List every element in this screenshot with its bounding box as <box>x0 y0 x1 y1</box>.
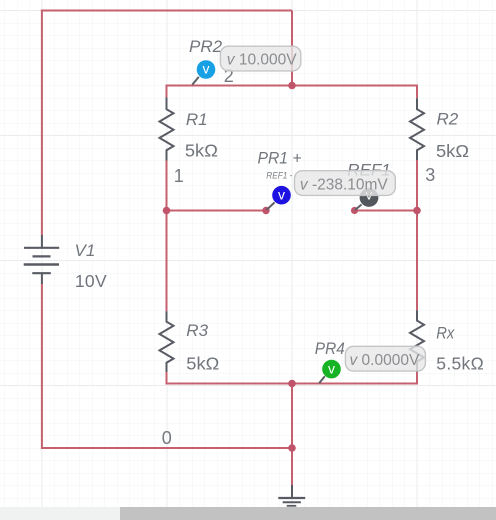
endpoint dot PR1 stub <box>262 207 269 214</box>
wire top rail <box>41 10 292 12</box>
junction node 1 <box>163 207 171 215</box>
svg-text:v 0.0000V: v 0.0000V <box>350 352 420 369</box>
svg-text:v -238.10mV: v -238.10mV <box>300 176 389 193</box>
svg-text:5kΩ: 5kΩ <box>186 354 219 374</box>
probe PR2 circle <box>197 60 216 79</box>
svg-text:R2: R2 <box>437 110 459 129</box>
probe PR4 circle <box>322 360 341 379</box>
wire bridge right between node 3 and Rx <box>416 211 418 311</box>
ground <box>278 485 305 506</box>
scrollbar thumb <box>120 507 496 520</box>
wire bridge left lower lead <box>166 372 168 385</box>
probe REF1 circle <box>360 188 379 207</box>
junction node 2 top <box>288 82 296 90</box>
scrollbar track <box>0 507 496 520</box>
svg-text:5kΩ: 5kΩ <box>436 141 469 161</box>
resistor R2 <box>410 98 424 160</box>
svg-text:3: 3 <box>425 165 435 185</box>
junction node 3 <box>413 207 421 215</box>
tooltip PR2 value box <box>220 46 300 71</box>
svg-text:v: v <box>328 360 335 376</box>
svg-text:R3: R3 <box>186 321 208 340</box>
wire middle stub right node 3 <box>354 210 418 212</box>
wire bridge left between node 1 and R3 <box>166 211 168 312</box>
probe PR1 circle <box>272 186 291 205</box>
svg-text:5.5kΩ: 5.5kΩ <box>436 354 484 374</box>
wire bridge right between R2 and node 3 <box>416 160 418 211</box>
svg-text:1: 1 <box>174 166 184 186</box>
wire bridge left between R1 and node 1 <box>166 160 168 210</box>
wire left side lower <box>41 283 43 449</box>
wire center bottom from bridge to node 0 <box>291 384 293 449</box>
wire bridge top rail <box>167 85 418 87</box>
probe REF1 needle <box>355 205 362 211</box>
resistor R3 <box>160 311 174 372</box>
tooltip PR4 value box <box>345 346 425 371</box>
svg-text:5kΩ: 5kΩ <box>185 141 218 161</box>
svg-text:10V: 10V <box>75 271 107 291</box>
endpoint dot REF1 stub <box>351 207 358 214</box>
wire ground stem red <box>291 448 293 486</box>
wire bridge right upper lead <box>416 85 418 99</box>
tooltip REF1 value box <box>295 171 396 196</box>
svg-text:R1: R1 <box>186 110 208 129</box>
svg-text:PR2: PR2 <box>189 37 223 56</box>
svg-text:0: 0 <box>162 428 172 448</box>
wire center drop from top rail <box>291 11 293 86</box>
wire bridge left upper lead <box>166 85 168 98</box>
wire bridge bottom rail <box>167 383 418 385</box>
junction node 0 <box>288 444 296 452</box>
svg-text:Rx: Rx <box>436 324 454 343</box>
wire bottom outer rail <box>42 447 293 449</box>
probe PR2 needle <box>192 77 199 85</box>
resistor R1 <box>160 98 174 161</box>
junction bottom bridge <box>288 380 296 388</box>
svg-text:REF1 -: REF1 - <box>266 171 292 182</box>
resistor Rx <box>410 310 424 372</box>
svg-text:PR4: PR4 <box>315 339 345 358</box>
wire left side upper <box>41 10 43 236</box>
wire bridge right lower lead <box>416 372 418 385</box>
svg-text:v: v <box>278 186 285 202</box>
battery V1 <box>24 235 60 284</box>
wire middle stub left node 1 <box>167 210 267 212</box>
svg-text:v 10.000V: v 10.000V <box>227 52 297 69</box>
svg-text:V1: V1 <box>75 241 96 260</box>
probe PR1 needle <box>267 202 275 209</box>
svg-text:v: v <box>203 61 210 77</box>
probe PR4 needle <box>319 376 325 383</box>
svg-text:PR1 +: PR1 + <box>258 149 302 168</box>
